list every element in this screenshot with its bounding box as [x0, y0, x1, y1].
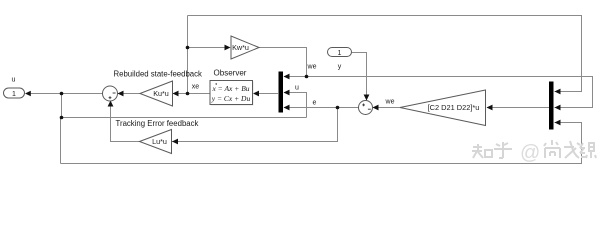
junction dot xe line — [186, 92, 190, 96]
svg-text:Rebuilded state-feedback: Rebuilded state-feedback — [114, 70, 203, 79]
svg-text:e: e — [313, 100, 317, 107]
junction dot xe to Kw*u — [186, 46, 190, 50]
wire: sum2 output e line to mux1 — [284, 107, 359, 109]
junction dot on u line — [60, 92, 64, 96]
wire: sum1 output to Out1 (u line) — [27, 93, 103, 95]
watermark 知乎 @尚戈继 — [472, 140, 596, 158]
wire: right mux output into gain C2 — [487, 107, 549, 109]
wire: mux1 output into Observer — [254, 93, 278, 95]
svg-text:Kw*u: Kw*u — [232, 43, 249, 52]
wire: u branch horizontal to mux1 riser — [62, 117, 307, 119]
svg-text:x = Ax + Bu: x = Ax + Bu — [211, 84, 249, 93]
svg-text:y: y — [338, 64, 342, 71]
wire: Kw*u output down to we node — [259, 48, 307, 77]
wire: u branch down from junction — [61, 94, 63, 118]
wire: observer xe output to Ku*u — [173, 93, 210, 95]
wire: we line into mux1 and right loop — [284, 77, 593, 108]
svg-text:u: u — [12, 77, 16, 84]
wire: u riser up into mux1 — [284, 93, 307, 118]
svg-text:u: u — [295, 85, 299, 92]
arrowhead into sum2 top — [364, 95, 370, 101]
svg-text:[C2 D21 D22]*u: [C2 D21 D22]*u — [428, 103, 480, 112]
gain Kw*u — [231, 36, 259, 59]
wire: xe feed to Kw*u — [188, 47, 227, 49]
arrowhead into Lu*u — [172, 139, 178, 145]
svg-text:y = Cx + Du: y = Cx + Du — [211, 94, 251, 103]
wire: Ku*u output into sum1 — [118, 93, 140, 95]
arrowhead into gain C2 — [487, 105, 493, 111]
gain Ku*u — [140, 81, 173, 106]
wire: u branch down to bottom bus — [60, 118, 62, 164]
arrowhead into mux1 e input — [284, 105, 290, 111]
junction dot u branch corner — [60, 116, 64, 120]
svg-text:xe: xe — [192, 84, 200, 91]
arrowhead into sum1 right — [118, 91, 124, 97]
out port 1 (u) — [4, 88, 25, 98]
arrowhead into mux2 input1 — [555, 89, 561, 95]
svg-text:Observer: Observer — [214, 69, 247, 78]
junction dot e node — [336, 106, 340, 110]
svg-text:Ku*u: Ku*u — [153, 89, 169, 98]
svg-text:1: 1 — [338, 50, 342, 57]
sum junction S1 — [103, 86, 118, 101]
wire: y inport to sum2 — [352, 53, 367, 101]
svg-text:1: 1 — [12, 91, 16, 98]
arrowhead into mux1 we input — [284, 74, 290, 80]
arrowhead into mux2 input3 — [555, 120, 561, 126]
svg-text:Tracking Error feedback: Tracking Error feedback — [116, 119, 199, 128]
svg-text:@: @ — [520, 142, 540, 164]
arrowhead into sum2 right — [373, 105, 379, 111]
arrowhead into Kw*u — [225, 45, 231, 51]
wire: bottom bus u to right mux — [61, 123, 582, 164]
gain Lu*u — [140, 130, 172, 154]
wire: xe riser up — [187, 16, 189, 94]
mux M2 — [549, 82, 554, 130]
wire: top bus xe to right — [188, 16, 582, 92]
svg-text:we: we — [385, 99, 395, 106]
arrowhead into Ku*u — [173, 91, 179, 97]
sum junction S2 — [359, 101, 373, 115]
wire: e branch down to Lu*u — [172, 108, 338, 142]
arrowhead into Observer — [253, 91, 259, 97]
wire: Lu*u output up into sum1 — [111, 102, 140, 142]
observer block (state-space) — [211, 82, 254, 106]
svg-text:we: we — [307, 64, 317, 71]
junction dot we node — [305, 75, 309, 79]
arrowhead into mux2 input2 — [555, 105, 561, 111]
in port 1 (y) — [328, 48, 352, 57]
arrowhead into mux1 u input — [284, 90, 290, 96]
arrowhead into sum1 bottom — [108, 101, 114, 107]
arrowhead into Out1 — [25, 91, 31, 97]
svg-text:Lu*u: Lu*u — [152, 137, 167, 146]
wire: gain C2 output into sum2 — [373, 107, 400, 109]
gain [C2 D21 D22]*u — [400, 90, 486, 126]
mux M1 — [279, 72, 284, 113]
